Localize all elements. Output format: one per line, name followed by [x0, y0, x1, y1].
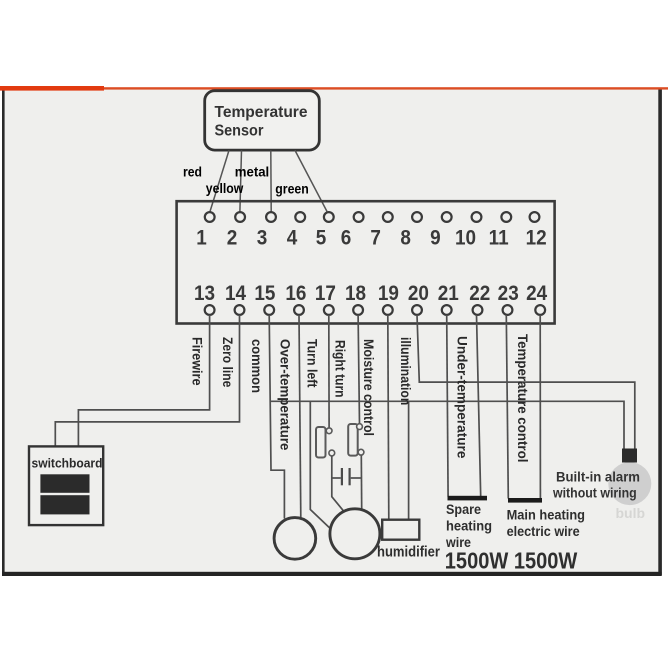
- svg-text:Zero line: Zero line: [220, 337, 235, 388]
- terminal pin 22 circle: [473, 305, 483, 315]
- svg-text:Right turn: Right turn: [333, 340, 348, 398]
- wire 14 zero line to switchboard: [55, 315, 239, 446]
- svg-text:11: 11: [489, 226, 509, 249]
- contact switch K1 body: [316, 427, 326, 458]
- svg-text:Sensor: Sensor: [215, 122, 264, 139]
- terminal pin 7 circle: [383, 212, 393, 222]
- terminal pin 12 circle: [530, 212, 540, 222]
- wire 13 firewire to switchboard: [78, 315, 209, 446]
- svg-text:yellow: yellow: [206, 181, 244, 196]
- spare heating wire element: [448, 496, 488, 501]
- terminal pin 2 circle: [235, 212, 245, 222]
- svg-text:4: 4: [287, 226, 298, 249]
- outer border bottom: [2, 572, 662, 576]
- svg-text:19: 19: [378, 282, 399, 305]
- svg-text:metal: metal: [235, 165, 269, 180]
- svg-text:7: 7: [370, 226, 381, 249]
- svg-text:common: common: [249, 339, 264, 393]
- left motor M1: [274, 518, 316, 560]
- svg-text:Temperature: Temperature: [215, 104, 308, 121]
- svg-text:switchboard: switchboard: [32, 456, 103, 471]
- wire 21 to spare heating bar: [447, 315, 448, 497]
- svg-text:green: green: [275, 181, 309, 196]
- wire contact K2 bottom to middle motor: [360, 455, 362, 509]
- switchboard breaker bar 2: [40, 495, 89, 514]
- svg-text:Over-temperature: Over-temperature: [278, 339, 293, 451]
- svg-text:20: 20: [408, 282, 429, 305]
- contact K2 top pin: [357, 424, 363, 430]
- svg-text:heating: heating: [446, 519, 492, 534]
- contact K1 top pin: [326, 428, 332, 434]
- wire 19 moisture control to humidifier: [388, 315, 389, 520]
- switchboard breaker bar 1: [40, 474, 89, 493]
- terminal pin 16 circle: [294, 305, 304, 315]
- svg-text:3: 3: [257, 226, 268, 249]
- svg-text:2: 2: [227, 226, 238, 249]
- svg-text:5: 5: [316, 226, 327, 249]
- terminal pin 14 circle: [235, 305, 245, 315]
- outer border right: [658, 88, 662, 576]
- svg-text:humidifier: humidifier: [377, 545, 440, 561]
- svg-text:22: 22: [469, 282, 490, 305]
- red top border line (thick left segment): [0, 86, 104, 91]
- svg-text:Built-in alarm: Built-in alarm: [556, 470, 640, 486]
- svg-text:1: 1: [196, 226, 207, 249]
- alarm base: [622, 449, 637, 463]
- wire common bus drop to middle motor: [310, 401, 330, 528]
- terminal pin 9 circle: [442, 212, 452, 222]
- svg-text:Main heating: Main heating: [507, 508, 585, 523]
- red top border line (thin full width): [0, 87, 668, 89]
- wire contact K1 bottom to middle motor: [332, 456, 344, 511]
- terminal pin 4 circle: [295, 212, 305, 222]
- terminal pin 24 circle: [535, 305, 545, 315]
- svg-text:16: 16: [285, 282, 306, 305]
- wire 18 right turn to contact K2: [358, 315, 359, 424]
- alarm bulb globe: [608, 462, 651, 505]
- middle motor M2: [330, 509, 380, 559]
- outer border left: [2, 88, 5, 575]
- humidifier box: [382, 520, 419, 540]
- svg-text:6: 6: [341, 226, 352, 249]
- capacitor C1 right plate: [349, 468, 351, 485]
- wire common bus horizontal: [270, 401, 624, 449]
- svg-text:electric wire: electric wire: [507, 524, 580, 539]
- wire common bus drop to humidifier: [408, 401, 410, 520]
- svg-text:18: 18: [345, 282, 366, 305]
- svg-text:14: 14: [225, 282, 247, 305]
- svg-text:bulb: bulb: [616, 505, 646, 521]
- capacitor C1 left plate: [341, 468, 343, 485]
- wire 17 turn left to contact K1: [328, 315, 330, 428]
- capacitor C1 right lead: [351, 477, 362, 479]
- svg-text:15: 15: [254, 282, 275, 305]
- terminal block U1: [177, 201, 555, 323]
- capacitor C1 left lead: [332, 477, 341, 479]
- terminal pin 17 circle: [324, 305, 334, 315]
- wire 16 over-temperature to left motor: [299, 315, 301, 518]
- terminal pin 23 circle: [503, 305, 513, 315]
- svg-text:23: 23: [498, 282, 519, 305]
- svg-text:Turn left: Turn left: [305, 339, 320, 388]
- wire 24 to main heating bar: [539, 315, 541, 499]
- svg-text:12: 12: [526, 226, 547, 249]
- contact switch K2 body: [348, 424, 358, 456]
- wire 23 to main heating bar: [506, 315, 508, 499]
- terminal pin 19 circle: [383, 305, 393, 315]
- svg-text:Temperature control: Temperature control: [515, 334, 530, 462]
- svg-text:8: 8: [400, 226, 411, 249]
- main heating wire element: [508, 498, 542, 503]
- terminal pin 3 circle: [266, 212, 276, 222]
- terminal pin 15 circle: [264, 305, 274, 315]
- temperature sensor box: [205, 91, 320, 150]
- terminal pin 11 circle: [501, 212, 511, 222]
- svg-text:1500W 1500W: 1500W 1500W: [445, 548, 578, 574]
- terminal pin 5 circle: [324, 212, 334, 222]
- wire 22 to spare heating bar: [477, 315, 481, 497]
- wire sensor red lead to terminal 1: [210, 150, 229, 211]
- svg-text:13: 13: [194, 282, 215, 305]
- wire sensor yellow lead to terminal 3: [270, 150, 272, 211]
- terminal pin 8 circle: [412, 212, 422, 222]
- svg-text:17: 17: [315, 282, 336, 305]
- diagram background panel: [2, 88, 662, 576]
- svg-text:9: 9: [430, 226, 441, 249]
- terminal pin 20 circle: [412, 305, 422, 315]
- svg-text:without wiring: without wiring: [552, 486, 637, 502]
- wire 20 illumination to alarm: [417, 315, 635, 449]
- svg-text:Moisture control: Moisture control: [361, 339, 376, 436]
- svg-text:10: 10: [455, 226, 476, 249]
- terminal pin 13 circle: [205, 305, 215, 315]
- contact K1 bottom pin: [329, 450, 335, 456]
- svg-text:illumination: illumination: [398, 337, 413, 405]
- terminal pin 10 circle: [472, 212, 482, 222]
- svg-text:red: red: [183, 165, 202, 180]
- terminal pin 18 circle: [353, 305, 363, 315]
- svg-text:Under-temperature: Under-temperature: [455, 336, 470, 459]
- svg-text:Spare: Spare: [446, 502, 481, 517]
- svg-text:24: 24: [526, 282, 548, 305]
- wire sensor green lead to terminal 5: [295, 150, 327, 211]
- svg-text:21: 21: [438, 282, 459, 305]
- terminal pin 1 circle: [205, 212, 215, 222]
- terminal pin 6 circle: [354, 212, 364, 222]
- switchboard box: [29, 446, 103, 525]
- wire sensor metal lead to terminal 2: [240, 150, 242, 211]
- svg-text:Firewire: Firewire: [190, 337, 205, 386]
- terminal pin 21 circle: [442, 305, 452, 315]
- wire 15 common down to left motor: [269, 315, 284, 519]
- contact K2 bottom pin: [358, 449, 364, 455]
